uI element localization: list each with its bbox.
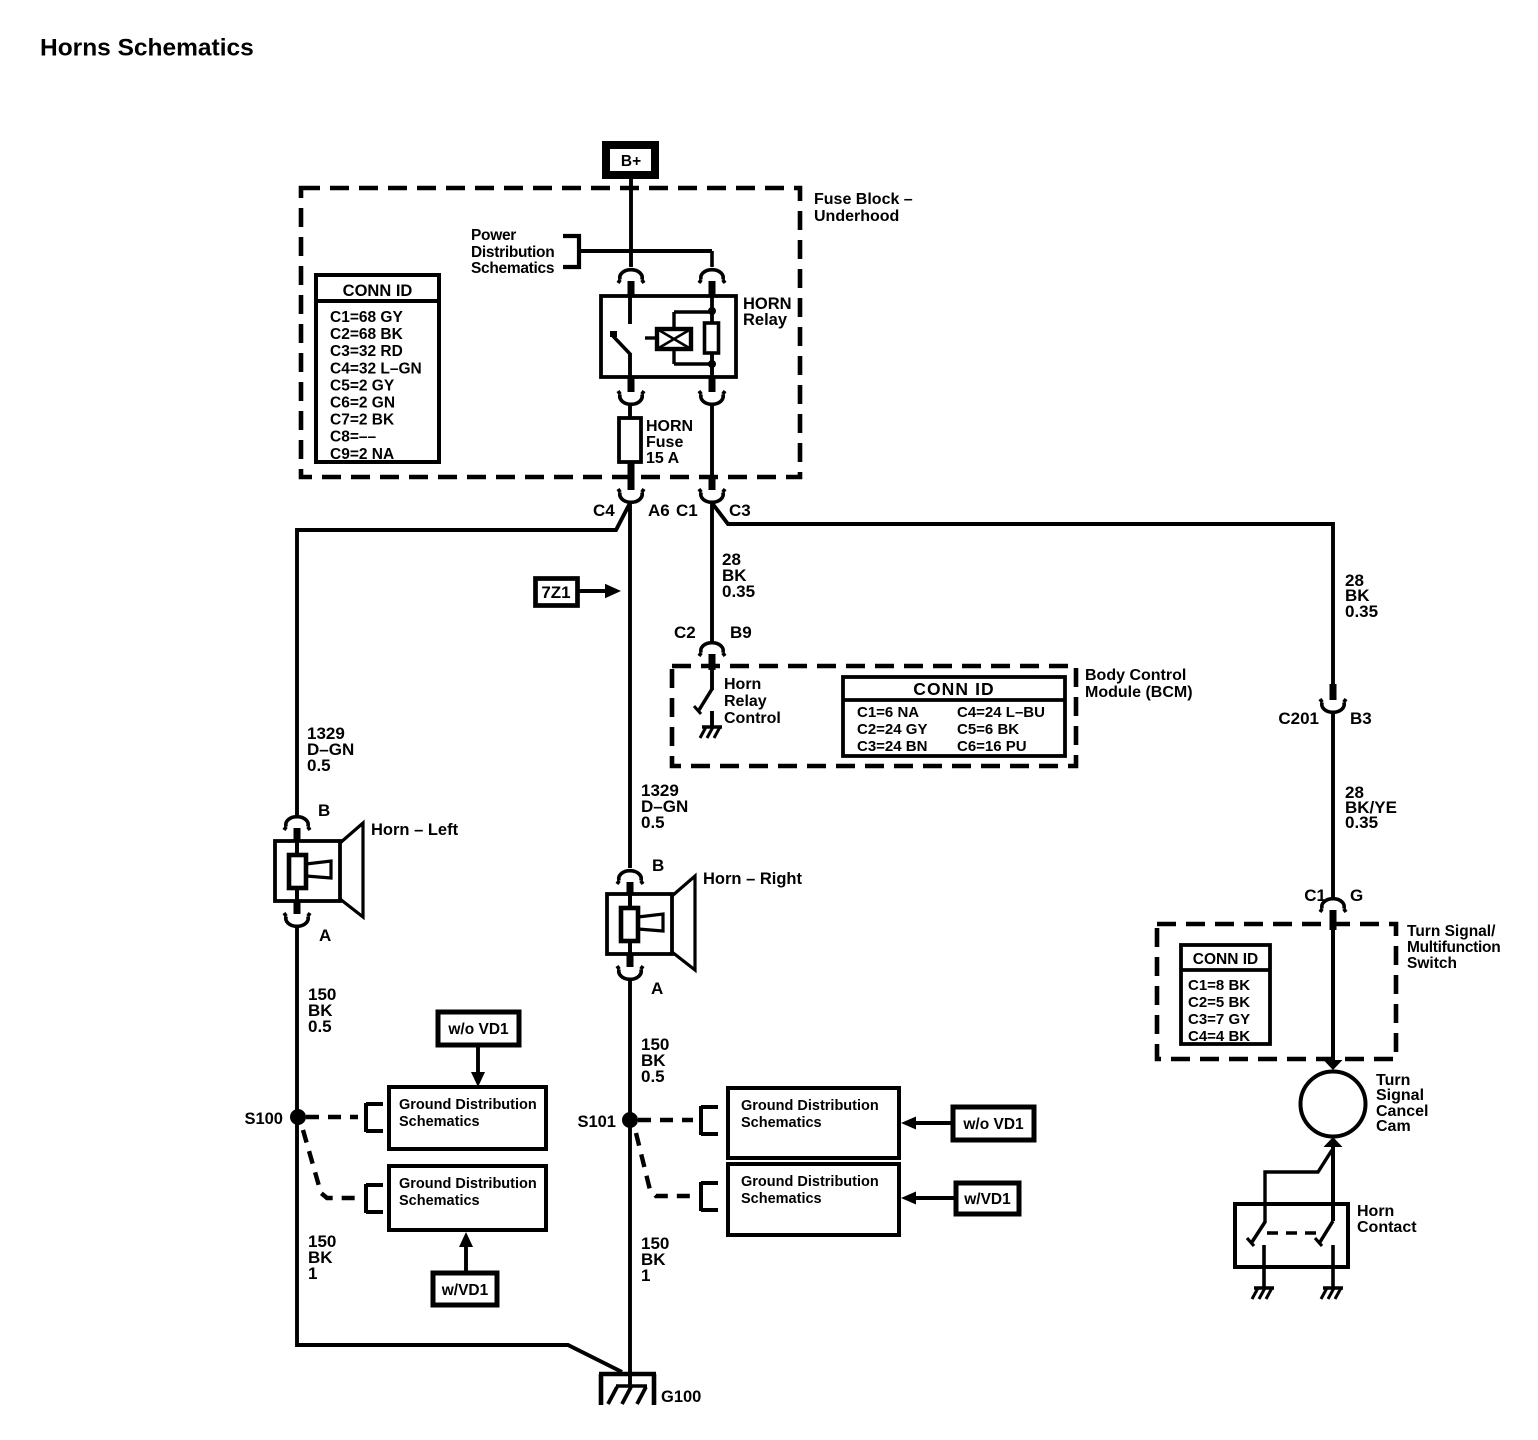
svg-text:Horn: Horn [1357, 1203, 1394, 1220]
svg-text:A: A [319, 926, 331, 945]
svg-text:Relay: Relay [724, 693, 767, 710]
svg-text:Multifunction: Multifunction [1407, 939, 1500, 956]
svg-text:15 A: 15 A [646, 450, 680, 467]
svg-text:C9=2 NA: C9=2 NA [330, 446, 394, 463]
svg-text:Schematics: Schematics [741, 1115, 822, 1131]
svg-text:G: G [1350, 886, 1363, 905]
svg-text:C3: C3 [729, 501, 751, 520]
svg-text:Control: Control [724, 710, 781, 727]
svg-text:B: B [652, 856, 664, 875]
svg-text:A6: A6 [648, 501, 670, 520]
svg-text:C2: C2 [674, 623, 696, 642]
svg-text:CONN ID: CONN ID [343, 282, 413, 300]
svg-text:Schematics: Schematics [399, 1114, 480, 1130]
svg-text:Ground Distribution: Ground Distribution [399, 1097, 537, 1113]
svg-text:Switch: Switch [1407, 955, 1457, 972]
svg-text:Distribution: Distribution [471, 244, 554, 261]
svg-text:Horn: Horn [724, 676, 761, 693]
svg-text:C4=24 L–BU: C4=24 L–BU [957, 704, 1045, 721]
svg-text:B3: B3 [1350, 709, 1372, 728]
svg-text:C3=32 RD: C3=32 RD [330, 343, 403, 360]
svg-text:Ground Distribution: Ground Distribution [741, 1098, 879, 1114]
svg-text:7Z1: 7Z1 [541, 583, 570, 602]
svg-text:C1=6 NA: C1=6 NA [857, 704, 919, 721]
svg-text:Schematics: Schematics [741, 1191, 822, 1207]
svg-text:Module (BCM): Module (BCM) [1085, 684, 1193, 701]
svg-text:Contact: Contact [1357, 1219, 1417, 1236]
svg-text:Fuse Block –: Fuse Block – [814, 191, 913, 208]
svg-text:Schematics: Schematics [399, 1193, 480, 1209]
svg-text:w/VD1: w/VD1 [963, 1191, 1011, 1208]
svg-text:C3=7 GY: C3=7 GY [1188, 1011, 1250, 1028]
svg-text:Signal: Signal [1376, 1087, 1424, 1104]
svg-text:S101: S101 [577, 1113, 616, 1131]
svg-text:C4=4 BK: C4=4 BK [1188, 1028, 1250, 1045]
svg-text:C2=5 BK: C2=5 BK [1188, 994, 1250, 1011]
svg-text:0.35: 0.35 [722, 582, 755, 601]
svg-text:0.35: 0.35 [1345, 813, 1378, 832]
svg-text:Relay: Relay [743, 311, 788, 329]
svg-text:HORN: HORN [646, 418, 693, 435]
svg-text:1: 1 [308, 1264, 317, 1283]
svg-text:0.5: 0.5 [308, 1017, 332, 1036]
svg-text:1: 1 [641, 1266, 650, 1285]
svg-text:C1=68 GY: C1=68 GY [330, 309, 403, 326]
svg-text:0.35: 0.35 [1345, 602, 1378, 621]
svg-text:Underhood: Underhood [814, 208, 899, 225]
svg-text:C1=8 BK: C1=8 BK [1188, 977, 1250, 994]
svg-text:C6=2 GN: C6=2 GN [330, 395, 395, 412]
svg-text:CONN ID: CONN ID [913, 679, 995, 699]
svg-text:C2=68 BK: C2=68 BK [330, 326, 404, 343]
svg-text:Ground Distribution: Ground Distribution [399, 1176, 537, 1192]
svg-text:C7=2 BK: C7=2 BK [330, 412, 395, 429]
svg-text:S100: S100 [244, 1110, 283, 1128]
svg-text:w/VD1: w/VD1 [441, 1282, 489, 1299]
svg-text:w/o VD1: w/o VD1 [962, 1116, 1024, 1133]
svg-text:B: B [318, 801, 330, 820]
svg-text:w/o VD1: w/o VD1 [447, 1021, 509, 1038]
svg-text:C4: C4 [593, 501, 615, 520]
svg-text:Horn – Right: Horn – Right [703, 870, 802, 888]
svg-text:B9: B9 [730, 623, 752, 642]
svg-text:Cam: Cam [1376, 1118, 1411, 1135]
svg-text:Horn – Left: Horn – Left [371, 821, 459, 839]
svg-text:C6=16 PU: C6=16 PU [957, 738, 1027, 755]
svg-text:C1: C1 [676, 501, 698, 520]
svg-text:Turn Signal/: Turn Signal/ [1407, 923, 1496, 940]
svg-text:Horns Schematics: Horns Schematics [40, 35, 254, 62]
svg-text:Body Control: Body Control [1085, 667, 1186, 684]
svg-text:G100: G100 [661, 1388, 701, 1406]
svg-text:0.5: 0.5 [307, 756, 331, 775]
svg-text:C4=32 L–GN: C4=32 L–GN [330, 360, 422, 377]
svg-text:C5=2 GY: C5=2 GY [330, 377, 395, 394]
svg-text:C201: C201 [1278, 709, 1319, 728]
svg-text:Fuse: Fuse [646, 434, 683, 451]
svg-text:Ground Distribution: Ground Distribution [741, 1174, 879, 1190]
svg-text:CONN ID: CONN ID [1193, 951, 1258, 968]
svg-text:Schematics: Schematics [471, 260, 554, 277]
svg-text:C2=24 GY: C2=24 GY [857, 721, 927, 738]
svg-text:0.5: 0.5 [641, 1067, 665, 1086]
svg-text:Power: Power [471, 227, 516, 244]
svg-text:C8=––: C8=–– [330, 429, 376, 446]
svg-text:0.5: 0.5 [641, 813, 665, 832]
svg-text:A: A [651, 979, 663, 998]
svg-text:B+: B+ [621, 153, 641, 170]
svg-text:C3=24 BN: C3=24 BN [857, 738, 927, 755]
svg-text:C5=6 BK: C5=6 BK [957, 721, 1019, 738]
